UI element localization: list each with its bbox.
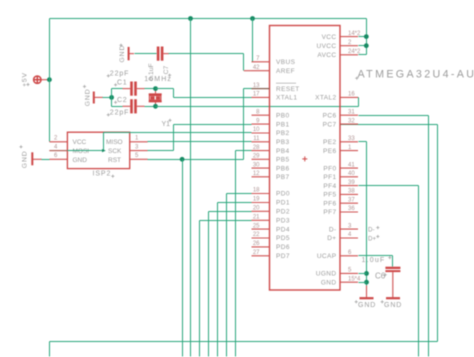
svg-text:C6: C6 [375, 272, 386, 281]
svg-text:PD4: PD4 [276, 226, 290, 233]
svg-text:PB2: PB2 [276, 130, 290, 137]
pin 16 XTAL2 [315, 92, 358, 102]
svg-text:18: 18 [253, 188, 260, 194]
svg-text:SCK: SCK [108, 148, 122, 155]
origin mark ISP2 [111, 175, 114, 178]
svg-text:PB5: PB5 [276, 157, 290, 164]
wire jog down to AREF [243, 54, 245, 71]
svg-text:D-: D- [329, 226, 337, 233]
pin 6 (ISP GND) [49, 158, 67, 160]
wire PD0 left [227, 193, 252, 195]
pin 6 UCAP [317, 250, 358, 260]
wire to C1 left [112, 88, 123, 90]
svg-text:PB0: PB0 [276, 112, 290, 119]
svg-text:RST: RST [108, 157, 121, 164]
wire MISO to PB3 [148, 141, 252, 143]
svg-text:PE2: PE2 [323, 139, 337, 146]
pin 1 (ISP MISO) [130, 141, 148, 143]
pin 26 PD6 [252, 241, 290, 251]
svg-text:20: 20 [253, 206, 260, 212]
pin 27 PD7 [252, 250, 290, 260]
svg-text:PD0: PD0 [276, 191, 290, 198]
svg-text:16: 16 [348, 92, 355, 98]
svg-text:1.0uF: 1.0uF [362, 257, 386, 264]
svg-text:VCC: VCC [73, 139, 87, 146]
origin mark GND [83, 85, 86, 88]
svg-text:UCAP: UCAP [317, 253, 337, 260]
wire PC6 down [428, 116, 430, 357]
svg-text:VCC: VCC [322, 34, 337, 41]
pin 5 UGND [316, 268, 358, 278]
wire RST riser to RESET [243, 89, 245, 160]
ground GND (C6) [386, 297, 400, 299]
wire to XTAL1 pin [174, 97, 252, 99]
pin 18 PD0 [252, 188, 290, 198]
pin 8 PB0 [252, 109, 290, 119]
origin mark 1.0uF [388, 256, 391, 259]
svg-text:AREF: AREF [276, 68, 295, 75]
svg-text:2: 2 [348, 40, 352, 46]
pin 41 PF0 [323, 162, 358, 172]
pin 3 (ISP SCK) [130, 150, 148, 152]
svg-text:ISP2: ISP2 [93, 170, 112, 177]
origin mark 22pF [107, 74, 110, 77]
svg-text:6: 6 [54, 153, 58, 159]
svg-text:9: 9 [256, 118, 260, 124]
svg-text:32: 32 [348, 118, 355, 124]
svg-text:D+: D+ [368, 235, 376, 242]
connector ISP2 [67, 132, 129, 168]
wire PF4 right [359, 185, 419, 187]
svg-text:12: 12 [253, 171, 260, 177]
wire UVCC ext [359, 45, 367, 47]
svg-text:PE6: PE6 [323, 148, 337, 155]
svg-text:5: 5 [348, 268, 352, 274]
wire junction up/down [111, 89, 113, 107]
svg-text:1: 1 [135, 136, 139, 142]
wire UGND wire [359, 273, 367, 275]
pin 11 PB3 [252, 136, 290, 146]
junction GND node [364, 280, 369, 285]
svg-text:30: 30 [253, 162, 260, 168]
svg-text:PD5: PD5 [276, 235, 290, 242]
svg-text:17: 17 [253, 92, 260, 98]
wire GND to C7 [135, 53, 157, 55]
svg-text:AVCC: AVCC [317, 52, 336, 59]
pin 2 (ISP VCC) [49, 141, 67, 143]
wire RST from ISP [148, 159, 244, 161]
origin mark 22pF [107, 113, 110, 116]
pin 9 PB1 [252, 118, 290, 128]
svg-text:UGND: UGND [316, 271, 337, 278]
pin 25 PD4 [252, 223, 290, 233]
capacitor C2 22pF [123, 99, 145, 113]
capacitor C1 22pF [123, 82, 145, 96]
pin 5 (ISP RST) [130, 158, 148, 160]
wire +5V to VBUS [252, 19, 254, 62]
wire +5V riser down to page bottom [190, 19, 192, 357]
origin mark C1 [114, 83, 117, 86]
svg-text:2: 2 [54, 136, 58, 142]
origin mark D- [376, 226, 379, 229]
svg-text:25: 25 [253, 223, 260, 229]
svg-text:4: 4 [54, 144, 58, 150]
pin 2 UVCC [316, 40, 358, 50]
wire PD0 down [226, 194, 228, 357]
origin mark GND label 1 [355, 300, 358, 303]
wire GND stub (red) [366, 286, 368, 298]
svg-text:40: 40 [348, 171, 355, 177]
wire VCC ext [359, 36, 367, 38]
origin mark Y1 [168, 119, 171, 122]
svg-text:PF7: PF7 [323, 209, 336, 216]
pin 24*2 AVCC [317, 49, 361, 59]
wire AREF long pin extension [244, 70, 252, 72]
wire GND wire [359, 282, 367, 284]
svg-text:PB3: PB3 [276, 139, 290, 146]
svg-text:C7: C7 [163, 65, 170, 74]
svg-text:GND: GND [119, 45, 126, 63]
svg-text:29: 29 [253, 154, 260, 160]
svg-text:19: 19 [253, 197, 260, 203]
pin 13 RESET [252, 83, 300, 93]
wire C1 to crystal top [145, 88, 156, 90]
pin 10 PB2 [252, 127, 290, 137]
pin 20 PD2 [252, 206, 290, 216]
wire GND to ISP pin 6 [42, 159, 50, 161]
wire PB4 left [236, 150, 252, 152]
wire SCK to PB1 [174, 124, 252, 126]
capacitor C7 0.1uF [157, 47, 169, 61]
ground GND (crystal caps) [94, 92, 103, 104]
svg-text:PD2: PD2 [276, 209, 290, 216]
wire RST down to page bottom [182, 160, 184, 357]
pin 32 PC7 [323, 118, 358, 128]
svg-text:PD3: PD3 [276, 218, 290, 225]
junction crystal top node [153, 86, 158, 91]
IC origin cross [302, 156, 307, 161]
svg-text:PF5: PF5 [323, 192, 336, 199]
wire +5V symbol up to rail [49, 19, 51, 80]
svg-text:41: 41 [348, 162, 355, 168]
svg-text:MISO: MISO [106, 139, 123, 146]
pin 31 PC6 [323, 109, 358, 119]
svg-text:31: 31 [348, 109, 355, 115]
wire +5V down to VCC/UVCC/AVCC [366, 19, 368, 55]
svg-text:PF1: PF1 [323, 174, 336, 181]
origin mark C6 [384, 273, 387, 276]
wire PB4 down [235, 151, 237, 357]
svg-text:PC7: PC7 [323, 121, 337, 128]
pin 22 PD5 [252, 232, 290, 242]
junction VCC node [364, 34, 369, 39]
pin 21 PD3 [252, 215, 290, 225]
pin 14*2 VCC [322, 31, 361, 41]
wire AVCC ext [359, 54, 367, 56]
wire PD2 left [209, 211, 252, 213]
wire PF4 down [418, 186, 420, 357]
svg-text:22: 22 [253, 232, 260, 238]
pin 36 PF7 [323, 206, 358, 216]
svg-text:7: 7 [256, 56, 260, 62]
svg-text:10: 10 [253, 127, 260, 133]
svg-text:8: 8 [256, 109, 260, 115]
wire C7 to AREF jog [169, 53, 244, 55]
wire UCAP right [359, 255, 393, 257]
svg-text:26: 26 [253, 241, 260, 247]
wire crystal top towards XTAL1 [156, 88, 174, 90]
svg-text:22pF: 22pF [110, 71, 130, 78]
op-amp U1: ATMEGA32U4-AU IC body [270, 26, 341, 291]
svg-text:VBUS: VBUS [276, 59, 296, 66]
svg-text:27: 27 [253, 250, 260, 256]
pin 38 PF5 [323, 189, 358, 199]
pin 4 (ISP MOSI) [49, 150, 67, 152]
wire PC7 down [437, 125, 439, 342]
svg-text:13: 13 [253, 83, 260, 89]
svg-text:4: 4 [348, 232, 352, 238]
wire MOSI along box top to PB2 [104, 132, 252, 134]
wire SCK jog up [173, 125, 175, 151]
svg-text:14*2: 14*2 [348, 31, 361, 37]
wire GND to junction [103, 97, 112, 99]
svg-text:PB1: PB1 [276, 121, 290, 128]
svg-text:PF4: PF4 [323, 183, 336, 190]
wire +5V top rail [50, 18, 367, 20]
wire SCK from ISP [148, 150, 174, 152]
wire PD2 down [208, 212, 210, 357]
svg-text:C2: C2 [117, 97, 127, 104]
origin mark D+ [376, 235, 379, 238]
wire crystal bottom across to right [156, 106, 359, 108]
crystal Y1 16MHz [149, 89, 162, 107]
svg-text:0.1uF: 0.1uF [148, 63, 155, 80]
junction RST branch [180, 157, 185, 162]
pin 42 AREF [252, 65, 295, 75]
svg-text:MOSI: MOSI [73, 148, 90, 155]
svg-text:D+: D+ [327, 235, 336, 242]
svg-text:GND: GND [22, 150, 29, 168]
origin mark C2 [114, 101, 117, 104]
svg-text:15*4: 15*4 [348, 276, 361, 282]
ground GND (UGND) [360, 297, 374, 299]
svg-text:UVCC: UVCC [316, 43, 336, 50]
svg-text:11: 11 [253, 136, 260, 142]
wire bottom bus exit [49, 342, 51, 357]
svg-text:D-: D- [368, 227, 375, 234]
svg-text:C1: C1 [117, 80, 127, 87]
svg-text:22pF: 22pF [110, 110, 130, 117]
svg-text:PF0: PF0 [323, 165, 336, 172]
junction C1/C2 gnd node [109, 95, 114, 100]
wire PC7 right [359, 124, 438, 126]
pin 1 PE6 [323, 145, 358, 155]
ground GND (ISP) [32, 152, 42, 165]
svg-text:ATMEGA32U4-AU: ATMEGA32U4-AU [358, 69, 474, 81]
origin mark GND ISP [19, 145, 22, 148]
pin 15*4 GND [321, 276, 361, 286]
wire PD1 down [217, 203, 219, 357]
wire PD1 left [218, 202, 252, 204]
junction UVCC node [364, 43, 369, 48]
svg-text:PD1: PD1 [276, 200, 290, 207]
pin 12 PB7 [252, 171, 290, 181]
wire bottom bus [50, 341, 438, 343]
origin mark +5V [26, 83, 29, 86]
pin 7 VBUS [252, 56, 296, 66]
svg-text:38: 38 [348, 189, 355, 195]
pin 37 PF6 [323, 197, 358, 207]
svg-text:5: 5 [135, 153, 139, 159]
wire PC7 pin stub ext [341, 124, 359, 126]
svg-text:1: 1 [348, 145, 352, 151]
pin 30 PB6 [252, 162, 290, 172]
svg-text:33: 33 [348, 136, 355, 142]
wire UCAP down to C6 [392, 256, 394, 267]
svg-text:PC6: PC6 [323, 112, 337, 119]
svg-text:XTAL2: XTAL2 [315, 95, 336, 102]
svg-text:GND: GND [85, 88, 92, 106]
svg-text:PF6: PF6 [323, 200, 336, 207]
svg-text:PD7: PD7 [276, 253, 290, 260]
wire MOSI through box [50, 150, 104, 152]
origin mark GND C7 [119, 44, 122, 47]
pin 29 PB5 [252, 154, 290, 164]
svg-text:PD6: PD6 [276, 244, 290, 251]
pin 33 PE2 [323, 136, 358, 146]
svg-text:GND: GND [321, 279, 337, 286]
junction +5V rail / riser to bottom [188, 16, 193, 21]
svg-text:21: 21 [253, 215, 260, 221]
wire jog down [173, 89, 175, 98]
junction +5V rail / VBUS drop [250, 16, 255, 21]
junction +5V node [47, 77, 52, 82]
wire riser to XTAL2 [358, 98, 360, 107]
svg-text:3: 3 [348, 223, 352, 229]
svg-text:28: 28 [253, 145, 260, 151]
wire PD3 left [200, 220, 252, 222]
wire PC6 right [359, 115, 429, 117]
svg-text:GND: GND [384, 302, 402, 309]
svg-text:3: 3 [135, 144, 139, 150]
svg-text:6: 6 [348, 250, 352, 256]
wire PD3 down [199, 221, 201, 357]
svg-text:39: 39 [348, 180, 355, 186]
svg-text:PB4: PB4 [276, 148, 290, 155]
wire PE2/GND riser [366, 142, 368, 286]
svg-text:RESET: RESET [276, 86, 300, 93]
supply +5V [34, 76, 50, 83]
svg-text:36: 36 [348, 206, 355, 212]
wire into XTAL2 pin [341, 97, 359, 99]
pin 39 PF4 [323, 180, 358, 190]
svg-text:GND: GND [73, 157, 88, 164]
wire PE2 to GND riser [359, 141, 367, 143]
wire MOSI up inside box [103, 133, 105, 151]
pin 4 D+ [327, 232, 358, 242]
capacitor C6 1.0uF [385, 267, 400, 298]
pin 19 PD1 [252, 197, 290, 207]
junction crystal bottom node [153, 104, 158, 109]
junction UGND node [364, 271, 369, 276]
ground GND (C7) [129, 47, 134, 60]
pin 17 XTAL1 [252, 92, 298, 102]
pin 28 PB4 [252, 145, 290, 155]
svg-text:PB6: PB6 [276, 165, 290, 172]
pin 40 PF1 [323, 171, 358, 181]
svg-text:XTAL1: XTAL1 [276, 95, 297, 102]
wire C2 to crystal bottom [145, 106, 156, 108]
origin mark 16MHz [168, 74, 171, 77]
origin mark ATMEGA [355, 77, 358, 80]
svg-text:PB7: PB7 [276, 174, 290, 181]
svg-text:GND: GND [358, 302, 376, 309]
junction MOSI corner [102, 149, 106, 152]
svg-text:37: 37 [348, 197, 355, 203]
wire +5V down to ISP VCC [49, 80, 51, 142]
wire RST overlap on RESET pin [252, 88, 270, 90]
wire to C2 left [112, 106, 123, 108]
origin mark GND label 2 [381, 300, 384, 303]
svg-text:42: 42 [253, 65, 260, 71]
svg-text:Y1: Y1 [162, 121, 171, 128]
wire RST onto RESET pin [244, 88, 270, 90]
pin 3 D- [329, 223, 358, 233]
